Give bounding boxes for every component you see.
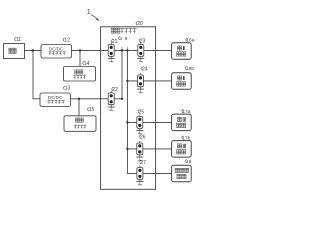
wire: row of unit 25 to load 17a [127, 121, 171, 123]
text 第1 [177, 45, 182, 48]
svg-text:16a: 16a [186, 37, 194, 43]
svg-text:1: 1 [120, 36, 123, 42]
svg-text:1: 1 [87, 7, 91, 16]
label 20 [136, 21, 143, 27]
label 19 (bus bars) [119, 36, 128, 42]
text コンバータ [47, 99, 50, 102]
text 機器 [176, 51, 181, 54]
fuse-switch unit 21 [108, 42, 115, 61]
label 16a [186, 37, 195, 43]
fuse-switch unit 22 [108, 91, 115, 110]
node junction W1/battery14 branch [79, 49, 81, 51]
fuse-switch unit 25 [136, 114, 143, 133]
svg-text:15: 15 [89, 107, 95, 113]
fuse-switch unit 27 [136, 165, 143, 184]
label 17a [182, 109, 191, 115]
wire: branch down to auxiliary battery 14 [79, 50, 81, 66]
label 25 [138, 109, 144, 115]
wire: DC/DC 13 output to bus1 (net W2) [71, 98, 123, 100]
label 16b [185, 66, 194, 72]
node junction W2/battery15 branch [78, 98, 80, 100]
label 27 [140, 160, 146, 166]
text 補機 [75, 117, 79, 120]
label 12 [63, 37, 70, 43]
bus bar 19 right segment (bus2) feeding rows 24-27 [127, 50, 171, 173]
node bus2/row24 [126, 80, 128, 82]
svg-text:27: 27 [140, 160, 146, 166]
fuse-switch unit 26 [136, 141, 143, 160]
label 26 [140, 134, 146, 140]
svg-text:21: 21 [112, 39, 118, 45]
text 第2 [177, 116, 182, 119]
DC/DC converter 13 box [40, 93, 71, 107]
label 24 [142, 66, 148, 72]
svg-text:13: 13 [65, 86, 71, 92]
label 13 [64, 86, 71, 92]
svg-text:DC/DC: DC/DC [49, 46, 64, 51]
fuse-switch unit 24 [137, 73, 144, 92]
load box 18 [172, 165, 192, 182]
figure reference numeral 1 with arrow [87, 7, 100, 21]
fuse-switch unit 23 [137, 42, 144, 61]
text 機器 [176, 122, 181, 125]
svg-text:14: 14 [84, 61, 90, 67]
node bus2/row25 [126, 121, 128, 123]
label 14 [83, 61, 90, 67]
svg-text:18: 18 [186, 159, 192, 165]
svg-text:9: 9 [125, 36, 128, 42]
auxiliary battery 14 box [64, 67, 96, 82]
wire: branch down to auxiliary battery 15 [78, 99, 80, 116]
svg-text:20: 20 [137, 21, 143, 27]
label 11 [15, 37, 22, 43]
svg-text:DC/DC: DC/DC [48, 95, 63, 100]
label 17b [182, 135, 191, 141]
text コンバータ [48, 51, 51, 54]
DC/DC converter 12 box [41, 45, 72, 59]
svg-text:22: 22 [112, 87, 118, 93]
text 機器 [177, 173, 182, 176]
svg-text:25: 25 [139, 109, 145, 115]
label 23 [139, 38, 145, 44]
load box 16b [172, 73, 192, 90]
auxiliary battery 15 box [64, 116, 96, 132]
node bus1/W2 [121, 98, 123, 100]
text 機器 [176, 81, 181, 84]
text 機器 [176, 148, 181, 151]
title 配電ボックス [111, 28, 137, 33]
text バッテリ [74, 124, 77, 127]
power supply 11 box [4, 44, 25, 59]
svg-text:11: 11 [16, 37, 21, 43]
text バッテリ [73, 74, 76, 77]
text 非常用 [175, 167, 180, 170]
svg-text:17a: 17a [182, 109, 190, 115]
load box 17a [172, 114, 192, 130]
power supply text 電源 [9, 47, 13, 50]
node bus1/W1 [121, 49, 123, 51]
text 補機 [74, 69, 78, 72]
svg-text:17b: 17b [182, 135, 190, 141]
svg-text:23: 23 [140, 38, 146, 44]
label 21 [111, 39, 117, 45]
svg-text:16b: 16b [186, 66, 194, 72]
wire: row of unit 24 to load 16b [127, 80, 171, 82]
label 22 [112, 87, 118, 93]
node bus2/row26 [126, 148, 128, 150]
wire: row of unit 26 to load 17b [127, 148, 171, 150]
label 15 [88, 107, 95, 113]
bus bar 19 left segment (bus1) [121, 50, 123, 98]
wire: branch from node at x33 down to DC/DC 13 [33, 50, 40, 98]
label 18 [186, 159, 192, 165]
svg-text:24: 24 [142, 66, 148, 72]
distribution box 20 outline [101, 27, 156, 190]
load box 16a [172, 43, 192, 60]
wire: power supply 11 to DC/DC 12 and into distribution box (net W1) [25, 49, 172, 51]
text 第2 [177, 143, 182, 146]
text 第1 [177, 75, 182, 78]
load box 17b [172, 141, 192, 158]
svg-text:26: 26 [140, 134, 146, 140]
node bus2/W1 [126, 49, 128, 51]
svg-text:12: 12 [64, 37, 70, 43]
node junction on W1 at power branch [32, 49, 34, 51]
